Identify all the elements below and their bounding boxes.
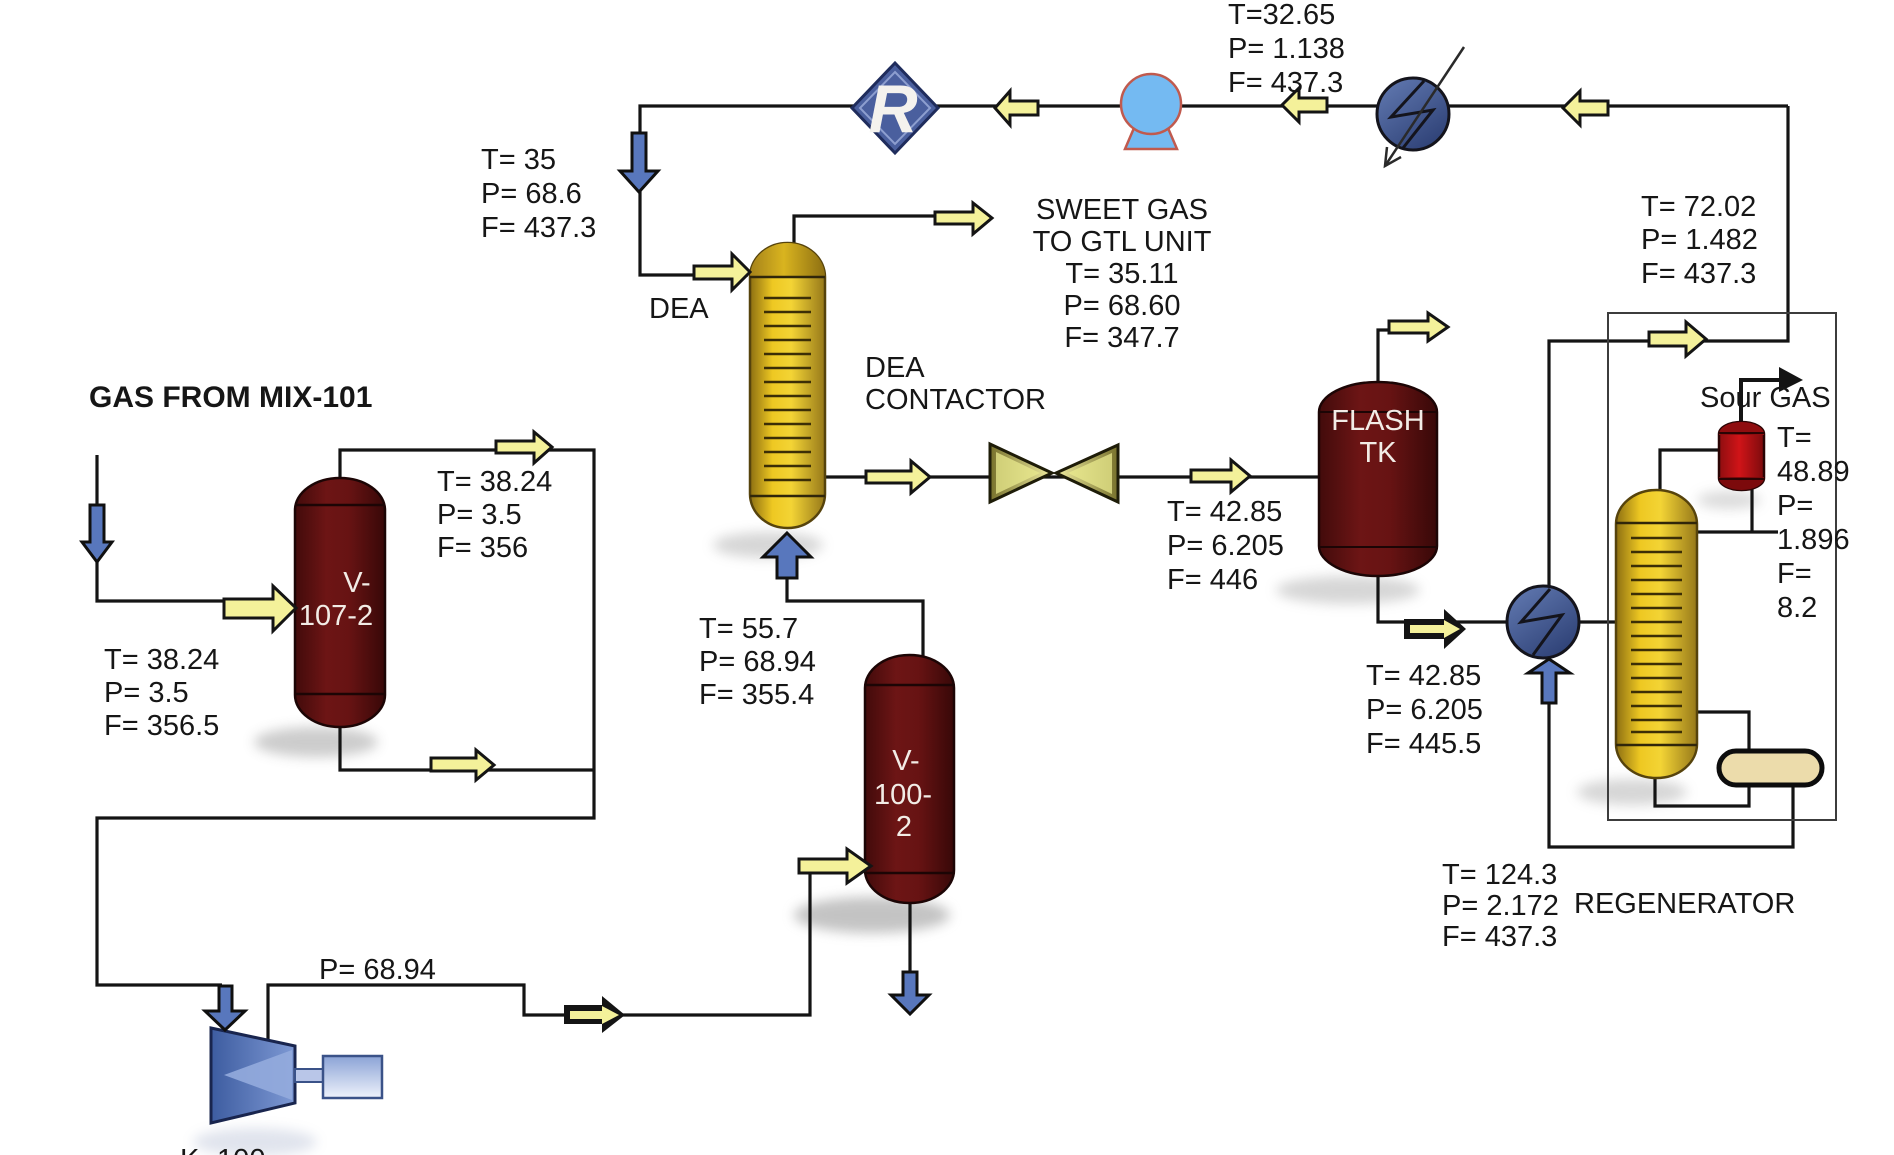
- arrow lean to pump (left): [995, 91, 1038, 125]
- svg-text:CONTACTOR: CONTACTOR: [865, 384, 1046, 416]
- wire rich amine: column to valve to flash: [825, 475, 1321, 478]
- svg-text:DEA: DEA: [649, 293, 709, 325]
- condenser (sour gas drum): [1719, 422, 1764, 490]
- svg-text:F= 437.3: F= 437.3: [1442, 921, 1557, 953]
- arrow V-100-2 feed: [799, 849, 871, 883]
- svg-text:107-2: 107-2: [299, 600, 373, 632]
- pump P-100: [1121, 74, 1181, 149]
- arrow pump to cooler (left): [1282, 88, 1327, 122]
- svg-text:8.2: 8.2: [1777, 592, 1817, 624]
- svg-text:P= 1.138: P= 1.138: [1228, 33, 1345, 65]
- svg-text:T= 55.7: T= 55.7: [699, 613, 798, 645]
- svg-text:FLASH: FLASH: [1331, 405, 1424, 437]
- svg-text:F=: F=: [1777, 558, 1812, 590]
- svg-text:48.89: 48.89: [1777, 456, 1850, 488]
- svg-text:F= 445.5: F= 445.5: [1366, 728, 1481, 760]
- arrow rich amine to valve: [866, 461, 930, 493]
- wire feed to V-107-2: [97, 455, 270, 601]
- arrow blue down into compressor: [205, 986, 245, 1030]
- svg-text:P= 6.205: P= 6.205: [1366, 694, 1483, 726]
- wire flash overhead vent: [1378, 330, 1396, 385]
- svg-text:T= 35.11: T= 35.11: [1065, 258, 1178, 290]
- arrow flash overhead: [1389, 313, 1448, 341]
- svg-text:T= 38.24: T= 38.24: [104, 644, 219, 676]
- svg-text:V-: V-: [892, 745, 919, 777]
- svg-text:TK: TK: [1359, 437, 1397, 469]
- arrow flash bottoms (black with yellow core): [1404, 609, 1466, 649]
- wire regenerator overhead to condenser: [1660, 450, 1721, 492]
- vessel V-100-2: [865, 655, 954, 903]
- wire exchanger shell out up and across to header: [1549, 106, 1788, 590]
- svg-text:T= 42.85: T= 42.85: [1366, 660, 1481, 692]
- svg-text:V-: V-: [343, 567, 370, 599]
- svg-text:F= 437.3: F= 437.3: [1641, 258, 1756, 290]
- svg-text:P=: P=: [1777, 490, 1813, 522]
- svg-text:T=: T=: [1777, 422, 1812, 454]
- svg-text:T= 72.02: T= 72.02: [1641, 191, 1756, 223]
- wire flash bottoms to exchanger: [1378, 573, 1510, 622]
- arrow stream feed into V-107-2: [224, 586, 296, 631]
- svg-text:P= 3.5: P= 3.5: [104, 677, 189, 709]
- wire compressor discharge to V-100-2: [268, 866, 866, 1040]
- wire V-100-2 bottoms: [908, 900, 911, 985]
- arrow blue up into exchanger E-100: [1528, 659, 1570, 703]
- svg-text:P= 68.60: P= 68.60: [1064, 290, 1181, 322]
- arrow valve to flash: [1191, 460, 1250, 492]
- column DEA contactor: [750, 243, 825, 528]
- blue arrows: [82, 133, 1570, 1030]
- svg-text:2: 2: [896, 811, 912, 843]
- svg-text:P= 68.94: P= 68.94: [319, 954, 436, 986]
- svg-text:F= 347.7: F= 347.7: [1064, 322, 1179, 354]
- svg-text:F= 356: F= 356: [437, 532, 528, 564]
- svg-text:F= 446: F= 446: [1167, 564, 1258, 596]
- cooler E-cooler (circle with zigzag): [1377, 47, 1464, 166]
- svg-text:TO GTL UNIT: TO GTL UNIT: [1033, 226, 1212, 258]
- svg-text:P= 2.172: P= 2.172: [1442, 890, 1559, 922]
- svg-text:Sour GAS: Sour GAS: [1700, 382, 1831, 414]
- svg-text:T= 38.24: T= 38.24: [437, 466, 552, 498]
- compressor K-100: [211, 1028, 382, 1123]
- svg-text:GAS FROM MIX-101: GAS FROM MIX-101: [89, 381, 372, 414]
- arrow header right (left-pointing): [1563, 91, 1608, 125]
- svg-text:F= 437.3: F= 437.3: [481, 212, 596, 244]
- arrow regen inlet top (in box): [1649, 322, 1706, 356]
- svg-text:R: R: [868, 71, 917, 147]
- reboiler: [1719, 751, 1822, 785]
- svg-text:DEA: DEA: [865, 352, 925, 384]
- svg-text:P= 6.205: P= 6.205: [1167, 530, 1284, 562]
- wire sweet gas overhead: [794, 216, 940, 246]
- svg-text:T= 124.3: T= 124.3: [1442, 859, 1557, 891]
- arrow compressor discharge (black with yellow core): [564, 996, 625, 1033]
- recycle block R: [852, 63, 938, 153]
- arrow blue feed down (top of diagram): [620, 133, 658, 192]
- svg-text:SWEET GAS: SWEET GAS: [1036, 194, 1208, 226]
- svg-text:P= 3.5: P= 3.5: [437, 499, 522, 531]
- svg-text:T=32.65: T=32.65: [1228, 0, 1335, 31]
- wire reboiler lean amine out: [1549, 662, 1793, 847]
- arrow blue up into DEA bottom: [763, 533, 811, 578]
- regenerator boundary box: [1608, 313, 1836, 820]
- svg-text:F= 355.4: F= 355.4: [699, 679, 814, 711]
- column REGENERATOR: [1616, 490, 1697, 778]
- svg-text:P= 1.482: P= 1.482: [1641, 224, 1758, 256]
- svg-text:1.896: 1.896: [1777, 524, 1850, 556]
- wire top lean amine header: [640, 106, 1788, 275]
- svg-text:F= 437.3: F= 437.3: [1228, 67, 1343, 99]
- wire exchanger to regenerator: [1578, 620, 1618, 623]
- svg-text:100-: 100-: [874, 779, 932, 811]
- wire regenerator bottoms to reboiler: [1655, 712, 1749, 806]
- svg-text:T= 35: T= 35: [481, 144, 556, 176]
- wire sour gas outlet with arrowhead: [1741, 380, 1779, 424]
- wire condenser reflux: [1692, 488, 1778, 532]
- svg-text:F= 356.5: F= 356.5: [104, 710, 219, 742]
- svg-text:K- 100: K- 100: [180, 1144, 265, 1155]
- exchanger E-100 lean/rich: [1507, 586, 1579, 658]
- wire V-107-2 gas out to recycle junction: [97, 450, 594, 985]
- arrow V-107-2 gas out: [496, 432, 552, 463]
- arrow blue V-100-2 bottoms down: [891, 972, 929, 1014]
- arrow V-107-2 bottoms: [431, 750, 494, 780]
- wire V-107-2 bottoms: [340, 725, 594, 770]
- vessel V-107-2: [295, 478, 385, 727]
- arrow blue gas feed down (left): [82, 505, 112, 562]
- svg-text:P= 68.94: P= 68.94: [699, 646, 816, 678]
- arrow DEA feed into contactor: [694, 254, 750, 290]
- valve VLV: [990, 444, 1118, 502]
- svg-text:T= 42.85: T= 42.85: [1167, 496, 1282, 528]
- svg-text:REGENERATOR: REGENERATOR: [1574, 888, 1795, 920]
- wire DEA contactor bottom feed from V-100-2: [787, 545, 923, 660]
- svg-text:P= 68.6: P= 68.6: [481, 178, 582, 210]
- arrow sweet gas: [935, 203, 992, 234]
- shadows: [193, 491, 1761, 1155]
- vessel FLASH TK: [1319, 382, 1437, 576]
